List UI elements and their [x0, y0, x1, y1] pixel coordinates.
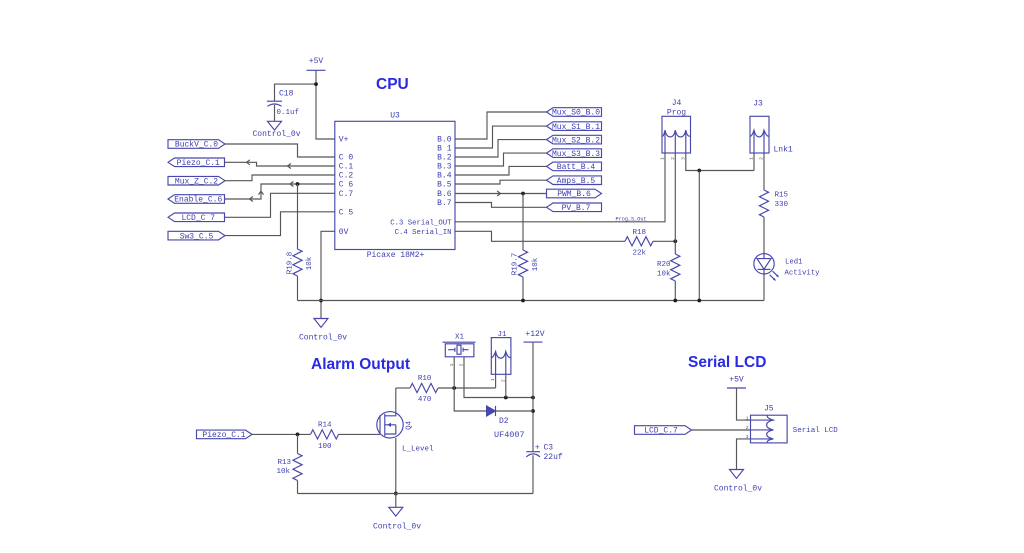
wire B.6 to PWM flag: [455, 193, 547, 195]
svg-text:Piezo_C.1: Piezo_C.1: [202, 431, 245, 440]
svg-text:X1: X1: [455, 333, 465, 341]
wire C3 to alarm rail: [532, 455, 534, 493]
wire R13 to alarm rail: [297, 481, 299, 494]
svg-text:Control_0v: Control_0v: [714, 484, 762, 493]
svg-text:22uf: 22uf: [544, 453, 563, 462]
junction J1 pin2: [504, 396, 508, 400]
wire +5V to J5 pin1: [737, 388, 751, 420]
power +12V bar: [524, 341, 543, 343]
wire +5V to V+ pin: [316, 70, 335, 139]
wire J4 pin2 down: [674, 153, 676, 254]
wire R15 to Led1: [763, 217, 765, 254]
capacitor C18: [267, 100, 282, 102]
node Sw3_C.5 flag: [168, 231, 225, 240]
transistor Q4 MOSFET L_Level: [377, 412, 403, 438]
connector J1: [491, 338, 511, 375]
wire X1 pin1 down to D2 anode: [454, 357, 486, 411]
wire 0V pin to rail and ground: [321, 231, 335, 318]
wire B.5 to Amps flag: [455, 180, 547, 184]
svg-text:PWM_B.6: PWM_B.6: [557, 190, 591, 199]
svg-text:J1: J1: [497, 331, 507, 339]
wire J1 pin1 to R10 net: [495, 374, 497, 388]
wire Mux_Z_C.2 to pin C.2: [225, 175, 335, 181]
svg-text:Control_0v: Control_0v: [299, 333, 347, 342]
svg-text:J4: J4: [672, 99, 682, 108]
svg-text:R19.7: R19.7: [512, 253, 520, 276]
svg-text:Lnk1: Lnk1: [774, 146, 793, 155]
wire C.4 Serial_IN to R16: [455, 231, 625, 241]
svg-text:+5V: +5V: [729, 375, 744, 384]
wire X1 pin2 to +12V line: [464, 357, 533, 398]
svg-text:B.3: B.3: [437, 163, 452, 172]
junction C.6/R19.8: [296, 182, 300, 186]
svg-text:Sw3_C.5: Sw3_C.5: [180, 232, 214, 241]
svg-text:C3: C3: [544, 444, 554, 453]
svg-text:B.6: B.6: [437, 190, 452, 199]
svg-text:B.5: B.5: [437, 181, 452, 190]
svg-text:Alarm Output: Alarm Output: [311, 356, 410, 373]
wire R10 to X1/J1: [438, 387, 496, 389]
svg-text:R14: R14: [318, 422, 332, 430]
svg-text:CPU: CPU: [376, 76, 409, 93]
wire J3 pin1 down: [753, 153, 755, 171]
svg-text:B.4: B.4: [437, 172, 452, 181]
svg-text:D2: D2: [499, 417, 509, 426]
junction rail/Q4/ground: [394, 492, 398, 496]
wire J3 pin2 to R15: [763, 153, 765, 190]
svg-text:2: 2: [746, 425, 749, 431]
svg-text:Piezo_C.1: Piezo_C.1: [177, 159, 220, 168]
node LCD_C.7 flag (serial): [635, 426, 692, 435]
svg-text:+5V: +5V: [309, 57, 324, 66]
junction +12V/D2: [531, 409, 535, 413]
wire Piezo_C.1 to pin C.1: [225, 162, 335, 166]
wire Q4 source to rail: [395, 438, 397, 494]
node Mux_Z_C.2 flag: [168, 176, 225, 185]
svg-text:B.2: B.2: [437, 154, 452, 163]
svg-text:Enable_C.6: Enable_C.6: [174, 196, 222, 205]
wire drain corner to R10: [396, 387, 410, 389]
node Mux_S2_B.2 flag: [547, 135, 602, 144]
node Piezo_C.1 alarm flag: [197, 430, 253, 439]
node Piezo_C.1 flag: [168, 158, 225, 167]
junction R18/R20/J4 pin2: [673, 239, 677, 243]
wire +5V branch to C18: [275, 84, 317, 101]
junction R10/X1 pin1/D2: [452, 386, 456, 390]
wire R19.7 to 0v rail: [522, 277, 524, 301]
wire B.6 junction down to R19.7: [522, 194, 524, 251]
wire J1 pin2 down: [505, 374, 507, 397]
power +5V bar (serial): [727, 387, 746, 389]
ground Control_0v (C18): [268, 121, 282, 130]
svg-text:J5: J5: [764, 405, 774, 414]
svg-text:Control_0v: Control_0v: [252, 130, 300, 139]
svg-text:C.1: C.1: [339, 163, 354, 172]
node Amps_B.5 flag: [547, 176, 602, 185]
connector J3 Lnk1: [750, 116, 769, 153]
svg-text:Control_0v: Control_0v: [373, 523, 421, 532]
junction +5V/C18: [314, 82, 318, 86]
junction rail: [697, 299, 701, 303]
svg-text:Mux_S3_B.3: Mux_S3_B.3: [552, 150, 600, 159]
svg-text:UF4007: UF4007: [494, 430, 525, 440]
svg-text:B 1: B 1: [437, 145, 452, 154]
wire Led1 to rail: [763, 274, 765, 301]
svg-text:C.3 Serial_OUT: C.3 Serial_OUT: [390, 219, 452, 227]
svg-text:Mux_Z_C.2: Mux_Z_C.2: [175, 177, 218, 186]
svg-text:Picaxe 18M2+: Picaxe 18M2+: [367, 251, 425, 260]
svg-text:PV_B.7: PV_B.7: [562, 204, 591, 213]
node Enable_C.6 flag: [168, 195, 225, 204]
wire +12V down to C3: [532, 342, 534, 452]
svg-text:C 5: C 5: [339, 209, 354, 218]
wire LCD_C.7 to J5 pin2: [692, 429, 751, 431]
wire Enable_C.6 to pin C.6: [225, 184, 335, 199]
svg-text:J3: J3: [753, 100, 763, 109]
svg-text:100: 100: [318, 443, 332, 451]
ground Control_0v (CPU): [314, 319, 328, 328]
resistor R19.7 10k: [518, 250, 527, 277]
svg-text:1: 1: [660, 157, 666, 160]
svg-text:R20: R20: [657, 261, 671, 269]
node LCD_C.7 flag: [168, 213, 225, 222]
svg-text:Serial LCD: Serial LCD: [793, 427, 839, 435]
svg-text:Prog: Prog: [667, 109, 686, 118]
junction J4 pin3 net: [697, 169, 701, 173]
wire alarm 0v rail: [298, 493, 534, 495]
svg-text:10k: 10k: [276, 468, 290, 476]
svg-text:10k: 10k: [657, 270, 671, 278]
wire B.4 to Batt flag: [455, 166, 547, 175]
junction rail/R20: [673, 299, 677, 303]
svg-text:Mux_S2_B.2: Mux_S2_B.2: [552, 136, 600, 145]
wire B.2 to Mux_S2 flag: [455, 140, 547, 157]
junction +12V line: [531, 396, 535, 400]
svg-text:+: +: [535, 443, 540, 452]
connector J4 Prog: [662, 116, 691, 153]
svg-text:Q4: Q4: [405, 420, 413, 430]
svg-text:R19.8: R19.8: [286, 252, 294, 275]
resistor R10 470: [410, 383, 438, 392]
svg-text:R13: R13: [277, 459, 291, 467]
svg-text:Led1: Led1: [785, 259, 803, 267]
svg-text:Mux_S1_B.1: Mux_S1_B.1: [552, 123, 600, 132]
wire rail to ground: [395, 494, 397, 508]
node Mux_S0_B.0 flag: [547, 108, 602, 117]
junction rail/R19.7: [521, 299, 525, 303]
wire C.3 Serial_OUT to J4 pin1: [455, 153, 665, 222]
power +5V bar: [307, 69, 326, 71]
junction B.6/R19.7: [521, 192, 525, 196]
svg-text:U3: U3: [390, 112, 400, 121]
wire D2 cathode to +12V line: [496, 410, 534, 412]
wire BuckV_C.0 to pin C.0: [225, 144, 335, 157]
wire C18 to ground: [274, 105, 276, 122]
wire B.7 to Pv flag: [455, 203, 547, 208]
svg-text:L_Level: L_Level: [402, 445, 434, 453]
diode D2 UF4007: [487, 406, 496, 416]
wire R14 to Q4 gate: [339, 433, 377, 435]
junction rail/0V ground: [319, 299, 323, 303]
wire junction down to 0v rail: [698, 171, 700, 301]
capacitor C3 22uf: [526, 451, 540, 453]
svg-text:0V: 0V: [339, 228, 349, 237]
wire B.0 to Mux_S0 flag: [455, 112, 547, 139]
svg-text:22k: 22k: [633, 250, 647, 258]
wire R18 to junction: [653, 240, 675, 242]
resistor R14 100: [311, 430, 339, 439]
svg-text:C 6: C 6: [339, 181, 354, 190]
node BuckV_C.0 flag: [168, 140, 225, 149]
wire 0v rail: [298, 300, 765, 302]
svg-text:B.0: B.0: [437, 136, 452, 145]
ground Control_0v (alarm): [389, 507, 403, 516]
wire C.6 junction down to R19.8: [297, 184, 299, 249]
svg-text:Mux_S0_B.0: Mux_S0_B.0: [552, 109, 600, 118]
node Mux_S1_B.1 flag: [547, 122, 602, 131]
svg-text:Batt_B.4: Batt_B.4: [557, 163, 596, 172]
ground Control_0v (serial): [730, 470, 744, 479]
node Batt_B.4 flag: [547, 162, 602, 171]
op-amp U1 : IC U3 Picaxe 18M2+ body: [335, 121, 455, 249]
wire R19.8 to 0v rail: [297, 276, 299, 301]
svg-text:R15: R15: [775, 192, 789, 200]
svg-text:LCD_C.7: LCD_C.7: [644, 427, 678, 436]
svg-text:10k: 10k: [306, 256, 314, 270]
resistor R15 330: [759, 190, 768, 217]
svg-text:1: 1: [746, 415, 749, 421]
svg-text:470: 470: [418, 396, 432, 404]
resistor R13 10k: [293, 454, 302, 481]
wire R10 to Q4 drain: [395, 388, 397, 412]
resistor R20 10k: [671, 254, 680, 281]
wire Sw3_C.5 to pin C.5: [225, 212, 335, 236]
node Mux_S3_B.3 flag: [547, 149, 602, 158]
node Pv_B.7 flag: [547, 203, 602, 212]
wire J4 pin3 to J3 pin1: [686, 153, 754, 171]
junction Piezo/R13/R14: [296, 433, 300, 437]
wire B.1 to Mux_S1 flag: [455, 126, 547, 148]
wire junction to R13: [297, 434, 299, 453]
svg-text:C 0: C 0: [339, 154, 354, 163]
svg-text:330: 330: [775, 201, 789, 209]
connector J5 Serial LCD: [751, 415, 788, 443]
resistor R19.8 10k: [293, 249, 302, 276]
wire LCD_C.7 to pin C.7: [225, 193, 335, 217]
LED Led1 Activity: [754, 254, 779, 281]
svg-text:V+: V+: [339, 136, 349, 145]
svg-text:C.7: C.7: [339, 190, 354, 199]
wire J5 pin3 to ground: [737, 439, 751, 470]
svg-text:0.1uf: 0.1uf: [277, 109, 300, 117]
svg-text:Prog_S_Out: Prog_S_Out: [616, 216, 647, 222]
svg-text:B.7: B.7: [437, 199, 452, 208]
svg-text:R18: R18: [633, 229, 647, 237]
transducer X1: [443, 342, 476, 357]
svg-text:C.4 Serial_IN: C.4 Serial_IN: [395, 229, 452, 237]
svg-text:Amps_B.5: Amps_B.5: [557, 177, 596, 186]
svg-text:C.2: C.2: [339, 172, 354, 181]
wire R20 to rail: [674, 281, 676, 301]
node PWM_B.6 flag: [547, 189, 602, 198]
svg-text:C18: C18: [279, 90, 294, 99]
svg-text:BuckV_C.0: BuckV_C.0: [175, 141, 218, 150]
svg-text:+12V: +12V: [525, 330, 544, 339]
wire B.3 to Mux_S3 flag: [455, 153, 547, 166]
resistor R18 22k: [625, 237, 653, 246]
svg-text:R10: R10: [418, 375, 432, 383]
wire Piezo_C.1 to R14: [252, 433, 311, 435]
svg-text:Activity: Activity: [785, 270, 821, 278]
svg-text:LCD_C 7: LCD_C 7: [181, 214, 215, 223]
svg-text:10k: 10k: [532, 257, 540, 271]
svg-text:Serial LCD: Serial LCD: [688, 354, 766, 371]
